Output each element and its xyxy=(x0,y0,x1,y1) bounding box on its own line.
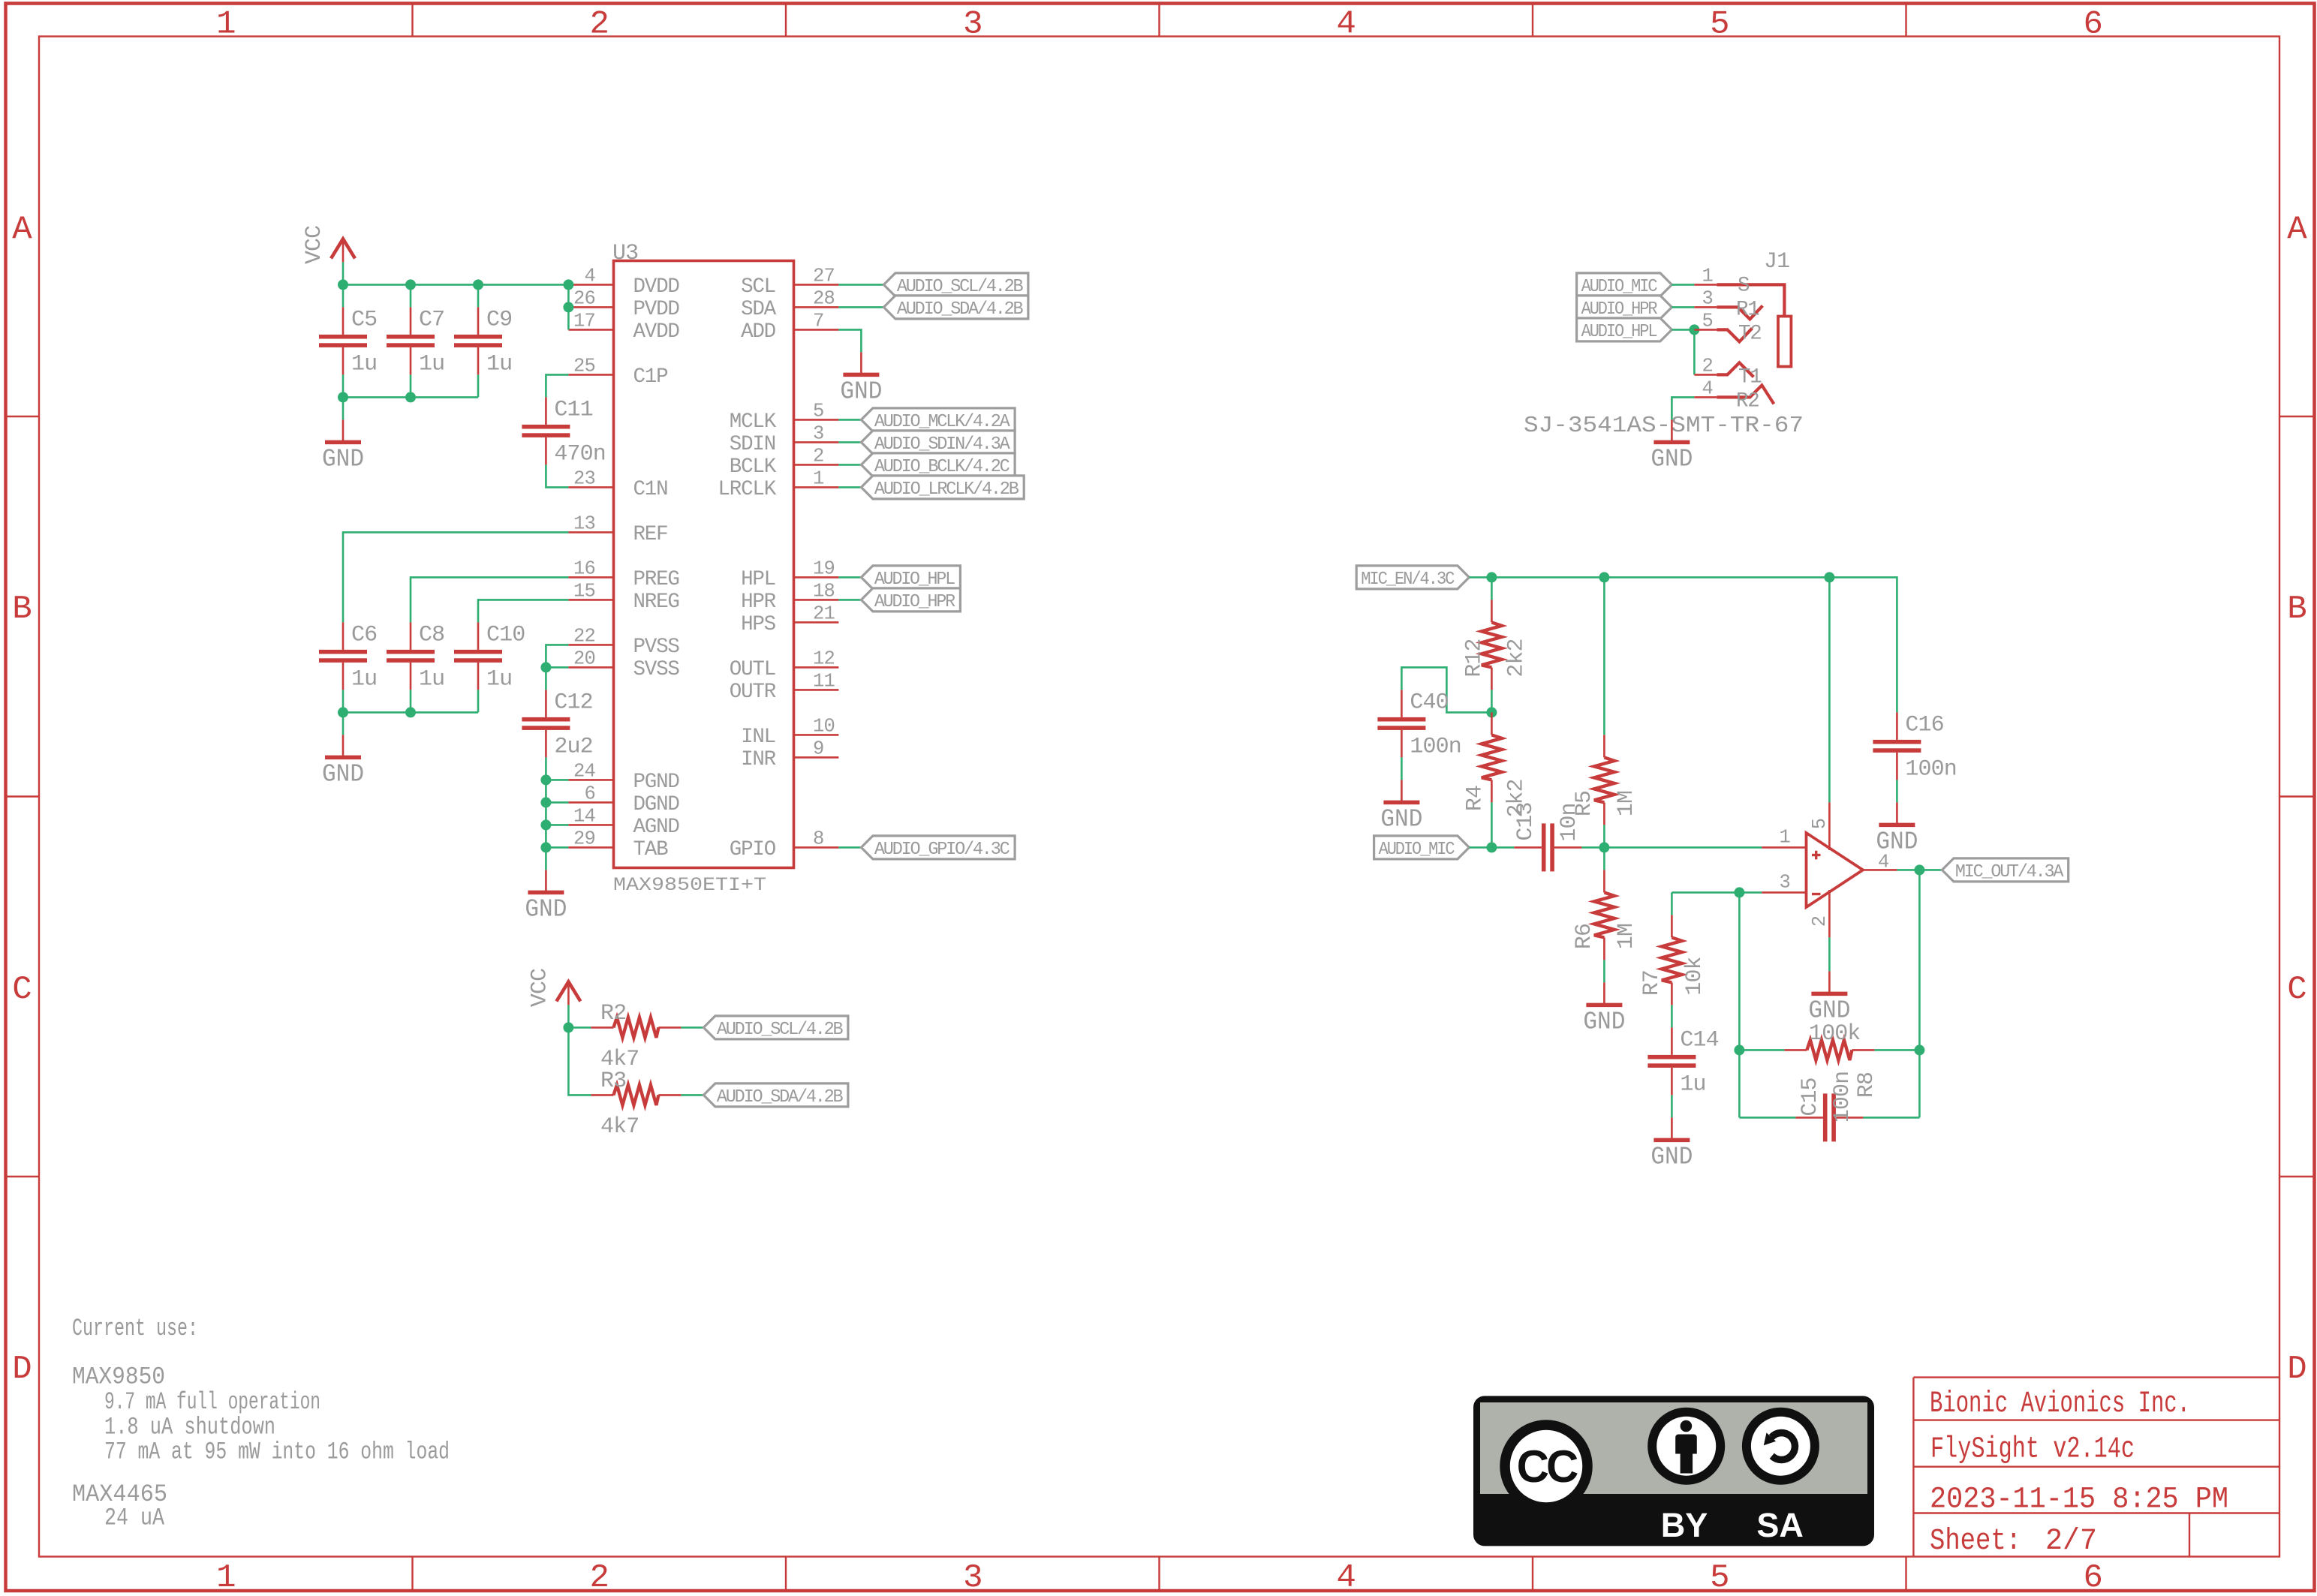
svg-text:SDIN: SDIN xyxy=(730,433,775,456)
power VCC symbol (R2/R3) xyxy=(556,981,580,1001)
capacitor C40 xyxy=(1401,690,1403,717)
svg-text:1M: 1M xyxy=(1614,791,1639,816)
net flag AUDIO_LRCLK/4.2B xyxy=(861,476,1024,499)
svg-text:23: 23 xyxy=(573,467,595,489)
svg-text:2: 2 xyxy=(589,6,608,44)
wire R5 top xyxy=(1603,577,1605,735)
svg-text:2023-11-15 8:25 PM: 2023-11-15 8:25 PM xyxy=(1930,1483,2228,1517)
svg-text:Sheet:: Sheet: xyxy=(1930,1525,2021,1558)
svg-text:OUTR: OUTR xyxy=(730,681,776,704)
svg-text:AUDIO_HPR: AUDIO_HPR xyxy=(1581,299,1658,320)
svg-text:SA: SA xyxy=(1756,1506,1804,1544)
wire C11 to C1N xyxy=(546,464,568,487)
wire DVDD-PVDD-AVDD riser xyxy=(567,284,570,329)
wire C40 gnd xyxy=(1401,757,1403,780)
svg-text:6: 6 xyxy=(584,783,595,804)
svg-text:C13: C13 xyxy=(1513,802,1539,840)
svg-text:GND: GND xyxy=(322,760,364,788)
svg-text:3: 3 xyxy=(813,422,824,444)
resistor R2 xyxy=(591,1026,613,1029)
U3 pin 24 PGND xyxy=(568,779,613,781)
wire R6 top xyxy=(1603,847,1605,870)
U3 pin 19 HPL xyxy=(794,576,839,579)
U3 pin 25 C1P xyxy=(568,374,613,376)
svg-text:GND: GND xyxy=(1650,445,1693,473)
svg-text:C6: C6 xyxy=(351,622,377,648)
svg-text:2k2: 2k2 xyxy=(1503,639,1529,677)
ground GND (U3 bus) xyxy=(545,870,547,892)
net flag AUDIO_BCLK/4.2C xyxy=(861,453,1015,476)
svg-text:18: 18 xyxy=(813,580,835,602)
svg-text:R4: R4 xyxy=(1462,786,1488,811)
svg-text:GND: GND xyxy=(1380,805,1422,833)
wire C14 gnd xyxy=(1671,1095,1673,1117)
IC U3 MAX9850 body xyxy=(614,261,794,868)
net flag AUDIO_HPR (J1) xyxy=(1577,296,1672,319)
op-amp pin 5 stub xyxy=(1828,802,1831,850)
svg-text:AUDIO_MIC: AUDIO_MIC xyxy=(1581,277,1658,297)
svg-text:4: 4 xyxy=(1336,6,1355,44)
svg-text:9.7 mA full operation: 9.7 mA full operation xyxy=(104,1388,320,1416)
svg-text:19: 19 xyxy=(813,558,835,579)
wire SCL xyxy=(838,284,883,286)
junction fb right R8 xyxy=(1914,1044,1924,1055)
svg-text:26: 26 xyxy=(573,287,595,309)
svg-text:14: 14 xyxy=(573,805,595,827)
svg-text:PVDD: PVDD xyxy=(633,298,680,321)
U3 pin 20 SVSS xyxy=(568,666,613,669)
svg-text:A: A xyxy=(12,211,32,248)
svg-text:MCLK: MCLK xyxy=(730,410,777,434)
wire SVSS xyxy=(546,666,568,669)
svg-text:3: 3 xyxy=(1779,871,1790,893)
net flag AUDIO_SDIN/4.3A xyxy=(861,431,1015,454)
svg-text:SVSS: SVSS xyxy=(633,658,680,681)
U3 pin 9 INR xyxy=(794,756,839,759)
svg-text:11: 11 xyxy=(813,670,835,692)
frame column ticks xyxy=(411,4,413,37)
junction mic/R4 xyxy=(1486,842,1497,852)
svg-text:Bionic Avionics Inc.: Bionic Avionics Inc. xyxy=(1930,1387,2190,1421)
svg-text:B: B xyxy=(2287,591,2306,628)
junction gnd bus AGND xyxy=(540,819,551,830)
wire mic to J1 pin1 xyxy=(1672,284,1694,286)
svg-text:MAX9850: MAX9850 xyxy=(72,1363,165,1391)
svg-text:21: 21 xyxy=(813,603,835,624)
svg-text:2u2: 2u2 xyxy=(554,734,592,759)
svg-text:AUDIO_HPL: AUDIO_HPL xyxy=(874,570,955,590)
svg-text:AGND: AGND xyxy=(633,816,680,839)
svg-text:PGND: PGND xyxy=(633,771,680,794)
capacitor C13 xyxy=(1514,846,1541,849)
wire C9 top xyxy=(477,284,480,307)
svg-text:ADD: ADD xyxy=(741,320,776,344)
wire J1 pin4 jog xyxy=(1672,397,1694,419)
resistor R5 xyxy=(1603,735,1605,757)
resistor R12 xyxy=(1491,600,1493,622)
svg-text:C9: C9 xyxy=(486,307,512,332)
junction R12/R4/C40 xyxy=(1486,707,1497,717)
svg-text:GND: GND xyxy=(1808,996,1850,1024)
frame row ticks xyxy=(6,416,40,417)
svg-text:BY: BY xyxy=(1661,1506,1708,1544)
wire R6 gnd xyxy=(1603,960,1605,982)
U3 pin 12 OUTL xyxy=(794,666,839,669)
op-amp U2 MAX4465 xyxy=(1807,833,1864,907)
junction gnd bus DGND xyxy=(540,797,551,807)
junction R5/R6/C13 xyxy=(1599,842,1609,852)
junction output xyxy=(1914,864,1924,875)
wire AUDIO_SDIN/4.3A xyxy=(838,441,861,443)
svg-text:8: 8 xyxy=(813,828,824,849)
svg-text:GND: GND xyxy=(1650,1143,1693,1171)
svg-text:1: 1 xyxy=(216,1559,235,1596)
U3 pin 18 HPR xyxy=(794,599,839,601)
wire C12 top xyxy=(545,667,547,690)
svg-text:R3: R3 xyxy=(600,1069,626,1094)
svg-text:C1P: C1P xyxy=(633,365,669,389)
wire VCC2 stem xyxy=(567,1005,570,1027)
U3 pin 8 GPIO xyxy=(794,846,839,849)
ground GND (op-amp) xyxy=(1828,971,1831,993)
wire inv to R7 xyxy=(1671,892,1673,915)
net flag AUDIO_HPL xyxy=(861,566,960,589)
svg-text:CC: CC xyxy=(1517,1441,1578,1492)
svg-text:C1N: C1N xyxy=(633,478,668,501)
net flag AUDIO_MCLK/4.2A xyxy=(861,408,1015,431)
svg-text:C15: C15 xyxy=(1798,1078,1823,1116)
svg-text:100n: 100n xyxy=(1410,734,1461,759)
wire C7 top xyxy=(410,284,412,307)
U3 pin 29 TAB xyxy=(568,846,613,849)
svg-text:10: 10 xyxy=(813,715,835,737)
U3 pin 26 PVDD xyxy=(568,306,613,308)
U3 pin 21 HPS xyxy=(794,621,839,624)
wire inv input xyxy=(1672,891,1762,894)
junction SVSS node xyxy=(540,662,551,672)
svg-text:B: B xyxy=(12,591,31,628)
net flag AUDIO_MIC (J1) xyxy=(1577,273,1672,296)
svg-text:C8: C8 xyxy=(419,622,444,648)
svg-text:24 uA: 24 uA xyxy=(104,1504,165,1532)
svg-text:22: 22 xyxy=(573,625,595,647)
junction VCC rail C9 xyxy=(473,279,483,290)
U3 pin 11 OUTR xyxy=(794,689,839,691)
svg-text:100k: 100k xyxy=(1809,1021,1860,1047)
svg-text:17: 17 xyxy=(573,310,595,332)
svg-text:D: D xyxy=(2287,1351,2306,1388)
wire R12 top xyxy=(1491,577,1493,600)
svg-text:C5: C5 xyxy=(351,307,377,332)
wire pin2 gnd xyxy=(1828,937,1831,971)
resistor R4 xyxy=(1491,712,1493,735)
svg-text:1u: 1u xyxy=(486,351,512,377)
svg-text:INR: INR xyxy=(741,748,776,771)
title block grid xyxy=(1913,1376,2279,1378)
svg-text:AUDIO_LRCLK/4.2B: AUDIO_LRCLK/4.2B xyxy=(874,479,1019,500)
svg-text:7: 7 xyxy=(813,310,824,332)
U3 pin 15 NREG xyxy=(568,599,613,601)
svg-text:A: A xyxy=(2287,211,2307,248)
wire mic to C13 xyxy=(1491,846,1514,849)
svg-text:MAX9850ETI+T: MAX9850ETI+T xyxy=(613,874,766,896)
junction rail R12 xyxy=(1486,572,1497,582)
svg-text:R1: R1 xyxy=(1736,298,1759,321)
wire C9 bottom xyxy=(477,374,480,397)
svg-text:6: 6 xyxy=(2083,6,2102,44)
svg-text:5: 5 xyxy=(813,400,824,422)
wire C5 bottom xyxy=(342,374,345,397)
capacitor C6 xyxy=(342,622,345,650)
U3 pin 5 MCLK xyxy=(794,419,839,421)
wire C10 bottom xyxy=(477,690,480,712)
wire ADD to gnd xyxy=(838,329,861,352)
svg-text:5: 5 xyxy=(1710,6,1729,44)
wire SDA xyxy=(838,306,883,308)
junction gnd bus TAB xyxy=(540,842,551,852)
svg-text:28: 28 xyxy=(813,287,835,309)
wire VCC stem xyxy=(342,262,345,284)
U3 pin 2 BCLK xyxy=(794,464,839,466)
wire hpr to J1 pin3 xyxy=(1672,306,1694,308)
net flag AUDIO_GPIO/4.3C xyxy=(861,836,1015,859)
svg-text:T1: T1 xyxy=(1738,365,1762,389)
svg-text:D: D xyxy=(12,1351,31,1388)
capacitor C9 xyxy=(477,307,480,335)
junction VCC rail C5 xyxy=(338,279,348,290)
capacitor C14 xyxy=(1671,1027,1673,1055)
wire TAB stub xyxy=(546,846,568,849)
net flag AUDIO_HPL (J1) xyxy=(1577,318,1672,341)
wire C8 bottom xyxy=(410,690,412,712)
svg-text:AUDIO_MCLK/4.2A: AUDIO_MCLK/4.2A xyxy=(874,412,1010,432)
svg-text:GPIO: GPIO xyxy=(730,838,776,861)
svg-text:SCL: SCL xyxy=(741,275,775,299)
svg-text:MIC_OUT/4.3A: MIC_OUT/4.3A xyxy=(1955,862,2064,882)
svg-text:R2: R2 xyxy=(1736,389,1759,413)
svg-text:TAB: TAB xyxy=(633,838,669,861)
wire mic flag to R4 xyxy=(1469,846,1491,849)
svg-text:2: 2 xyxy=(1702,355,1713,377)
svg-text:9: 9 xyxy=(813,738,824,759)
svg-text:HPR: HPR xyxy=(741,591,776,614)
capacitor C12 xyxy=(545,690,547,717)
svg-text:SJ-3541AS-SMT-TR-67: SJ-3541AS-SMT-TR-67 xyxy=(1524,413,1804,439)
svg-text:GND: GND xyxy=(1583,1008,1625,1035)
wire AUDIO_HPR xyxy=(838,599,861,601)
ground GND (J1) xyxy=(1671,419,1673,442)
svg-text:AUDIO_HPL: AUDIO_HPL xyxy=(1581,322,1657,342)
wire AUDIO_GPIO xyxy=(838,846,861,849)
svg-text:C12: C12 xyxy=(554,690,592,715)
wire AUDIO_MCLK/4.2A xyxy=(838,419,861,421)
wire VCC to R2 xyxy=(568,1026,591,1029)
ground GND (ADD) xyxy=(860,352,862,374)
wire MIC_EN rail xyxy=(1469,577,1897,712)
svg-text:REF: REF xyxy=(633,523,668,546)
capacitor C5 xyxy=(342,307,345,335)
net flag MIC_OUT/4.3A xyxy=(1942,858,2068,882)
svg-text:VCC: VCC xyxy=(527,969,552,1007)
power VCC symbol (U3) xyxy=(331,239,355,258)
svg-text:GND: GND xyxy=(525,895,567,923)
svg-text:C40: C40 xyxy=(1410,690,1448,715)
svg-text:1u: 1u xyxy=(1680,1072,1705,1097)
svg-text:INL: INL xyxy=(741,726,775,749)
svg-text:2: 2 xyxy=(1809,916,1831,927)
svg-text:1: 1 xyxy=(216,6,235,44)
svg-text:AUDIO_MIC: AUDIO_MIC xyxy=(1379,840,1455,860)
junction gnd rail C7 xyxy=(405,392,416,402)
svg-text:3: 3 xyxy=(963,6,982,44)
svg-text:24: 24 xyxy=(573,760,595,782)
U3 pin 27 SCL xyxy=(794,284,839,286)
svg-text:C10: C10 xyxy=(486,622,525,648)
net flag AUDIO_SCL/4.2B (R2) xyxy=(703,1016,848,1039)
svg-text:LRCLK: LRCLK xyxy=(718,478,776,501)
svg-text:T2: T2 xyxy=(1738,322,1762,345)
U3 pin 7 ADD xyxy=(794,329,839,331)
svg-text:AUDIO_HPR: AUDIO_HPR xyxy=(874,592,955,612)
wire hpl to J1 pin5 xyxy=(1672,329,1694,331)
junction HPL node xyxy=(1689,324,1699,335)
capacitor C15 xyxy=(1795,1117,1823,1119)
wire C6 gnd rail xyxy=(343,711,478,714)
wire AUDIO_HPL xyxy=(838,576,861,579)
svg-text:1.8 uA shutdown: 1.8 uA shutdown xyxy=(104,1413,275,1441)
svg-text:PVSS: PVSS xyxy=(633,636,680,659)
svg-text:2: 2 xyxy=(589,1559,608,1596)
svg-text:AUDIO_SCL/4.2B: AUDIO_SCL/4.2B xyxy=(897,277,1023,297)
wire R8 right xyxy=(1874,1049,1919,1051)
net flag AUDIO_MIC (amp) xyxy=(1374,836,1470,859)
svg-text:5: 5 xyxy=(1702,310,1713,332)
svg-text:27: 27 xyxy=(813,265,835,287)
wire C5 top xyxy=(342,284,345,307)
wire C6 bottom xyxy=(342,690,345,712)
svg-text:4: 4 xyxy=(1336,1559,1355,1596)
op-amp pin 1 stub xyxy=(1762,846,1806,849)
junction fb left R8 xyxy=(1734,1044,1744,1055)
junction C8 rail xyxy=(405,707,416,717)
wire hpl to J1 pin2 xyxy=(1693,329,1696,374)
wire R5 bottom xyxy=(1603,825,1605,847)
svg-text:1u: 1u xyxy=(351,351,377,377)
svg-text:4: 4 xyxy=(1702,377,1713,399)
capacitor C10 xyxy=(477,622,480,650)
svg-text:20: 20 xyxy=(573,648,595,669)
svg-text:AVDD: AVDD xyxy=(633,320,680,344)
wire gnd stub C6 rail xyxy=(342,712,345,735)
wire C15 right xyxy=(1863,1117,1919,1119)
svg-text:1u: 1u xyxy=(351,666,377,692)
svg-text:AUDIO_GPIO/4.3C: AUDIO_GPIO/4.3C xyxy=(874,840,1010,860)
svg-text:16: 16 xyxy=(573,558,595,579)
svg-text:Current use:: Current use: xyxy=(72,1315,198,1342)
svg-text:GND: GND xyxy=(840,377,882,405)
wire C13 to node xyxy=(1581,846,1604,849)
svg-text:C7: C7 xyxy=(419,307,444,332)
wire VCC to R3 xyxy=(568,1027,591,1095)
svg-text:VCC: VCC xyxy=(302,226,327,264)
capacitor C7 xyxy=(410,307,412,335)
svg-text:29: 29 xyxy=(573,828,595,849)
svg-text:AUDIO_SDA/4.2B: AUDIO_SDA/4.2B xyxy=(897,299,1023,320)
svg-text:S: S xyxy=(1738,274,1750,297)
wire NREG to C10 xyxy=(478,600,568,622)
svg-text:1: 1 xyxy=(1702,265,1713,287)
wire node to pin1 xyxy=(1604,846,1762,849)
junction rail R5 xyxy=(1599,572,1609,582)
junction gnd rail C5 xyxy=(338,392,348,402)
net flag AUDIO_HPR xyxy=(861,588,960,612)
svg-text:NREG: NREG xyxy=(633,591,679,614)
svg-text:1u: 1u xyxy=(419,351,444,377)
svg-text:C14: C14 xyxy=(1680,1027,1718,1053)
wire DGND stub xyxy=(546,801,568,804)
wire PGND stub xyxy=(546,779,568,781)
op-amp pin 2 stub xyxy=(1828,890,1831,937)
svg-text:R7: R7 xyxy=(1639,970,1665,996)
junction rail pin5 xyxy=(1824,572,1834,582)
svg-text:DGND: DGND xyxy=(633,793,680,816)
U3 pin 13 REF xyxy=(568,531,613,534)
wire VCC rail xyxy=(343,284,568,286)
svg-text:HPS: HPS xyxy=(741,613,776,636)
svg-text:1: 1 xyxy=(1779,826,1790,848)
svg-text:R8: R8 xyxy=(1854,1072,1879,1098)
resistor R8 xyxy=(1784,1049,1807,1051)
U3 pin 3 SDIN xyxy=(794,441,839,443)
svg-text:1u: 1u xyxy=(419,666,444,692)
svg-text:5: 5 xyxy=(1809,819,1831,830)
ground GND (R6) xyxy=(1603,982,1605,1005)
ground GND (C14) xyxy=(1671,1117,1673,1140)
junction PVDD xyxy=(563,302,573,312)
svg-text:MIC_EN/4.3C: MIC_EN/4.3C xyxy=(1361,570,1455,590)
svg-text:R12: R12 xyxy=(1461,639,1487,677)
svg-text:3: 3 xyxy=(1702,287,1713,309)
wire C40 link xyxy=(1401,667,1491,712)
capacitor C16 xyxy=(1896,712,1898,740)
junction C6 rail xyxy=(338,707,348,717)
junction inv/fb xyxy=(1734,887,1744,897)
svg-text:4k7: 4k7 xyxy=(600,1114,639,1140)
capacitor C11 xyxy=(545,397,547,425)
wire PVSS jog xyxy=(546,645,568,667)
svg-text:HPL: HPL xyxy=(741,568,775,591)
junction VCC rail pin4 xyxy=(563,279,573,290)
svg-text:DVDD: DVDD xyxy=(633,275,680,299)
svg-text:C16: C16 xyxy=(1905,712,1943,738)
svg-text:AUDIO_SCL/4.2B: AUDIO_SCL/4.2B xyxy=(717,1020,843,1040)
svg-text:5: 5 xyxy=(1710,1559,1729,1596)
wire C15 left xyxy=(1739,1117,1795,1119)
wire AGND stub xyxy=(546,824,568,826)
svg-text:25: 25 xyxy=(573,355,595,377)
svg-text:470n: 470n xyxy=(554,441,605,467)
J1 pin stubs and numbers xyxy=(1694,284,1717,286)
svg-text:6: 6 xyxy=(2083,1559,2102,1596)
wire REF to C6 xyxy=(343,532,568,622)
svg-text:BCLK: BCLK xyxy=(730,455,777,479)
svg-text:2: 2 xyxy=(813,445,824,467)
svg-text:SDA: SDA xyxy=(741,298,777,321)
svg-text:AUDIO_SDIN/4.3A: AUDIO_SDIN/4.3A xyxy=(874,434,1010,455)
wire R2 to flag xyxy=(681,1026,703,1029)
op-amp pin 4 stub xyxy=(1863,869,1897,871)
wire PREG to C8 xyxy=(411,577,568,622)
